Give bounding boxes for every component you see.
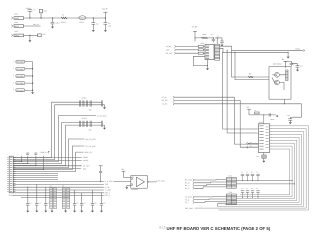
power UNSW_B+ (29, 11, 31, 18)
resistor network RN204 (67, 188, 70, 209)
svg-text:C2: C2 (251, 172, 253, 174)
wire IC1 out B (220, 48, 289, 52)
transformer T202 (226, 194, 236, 205)
svg-text:C2: C2 (241, 172, 243, 174)
svg-text:5_CH_ADJ: 5_CH_ADJ (97, 114, 106, 117)
wire RX_VCO in (194, 179, 226, 181)
svg-text:C2: C2 (241, 188, 243, 190)
wire bus7 (13, 146, 84, 170)
wire row C_H_ADJ (13, 181, 104, 183)
wire U203 pin5 wrap (228, 137, 299, 202)
ground supply end (276, 114, 278, 117)
ic U201 (205, 45, 214, 60)
wire RX_I in (194, 185, 226, 186)
svg-text:ANT1: ANT1 (15, 17, 19, 20)
filter CF202 (78, 123, 105, 126)
connector J202 (11, 25, 13, 28)
wire row ground bus (21, 196, 70, 198)
svg-text:SFE455E: SFE455E (16, 68, 24, 71)
svg-text:C_FL_ADJ: C_FL_ADJ (156, 179, 165, 182)
ground (206, 68, 209, 70)
wire row OPT_2 (13, 194, 104, 196)
wire IC1 in3 (176, 52, 198, 54)
resistor R221 (248, 76, 253, 78)
wire bus8 (13, 152, 83, 171)
svg-text:TX_Q: TX_Q (185, 198, 190, 201)
svg-text:5_CH: 5_CH (105, 186, 110, 189)
ground (80, 211, 83, 213)
capacitor C232 (36, 184, 38, 203)
capacitor U203 bypass (263, 153, 265, 156)
wire to U202 in1 (232, 50, 270, 77)
junction (52, 17, 53, 18)
wire speaker line (24, 34, 38, 36)
capacitor C221 (290, 63, 294, 64)
svg-text:SFE455E: SFE455E (16, 75, 24, 78)
svg-text:SFE455E: SFE455E (16, 89, 24, 92)
svg-text:XS201: XS201 (9, 194, 14, 197)
svg-text:DEMO: DEMO (83, 156, 89, 159)
capacitor C211 (212, 38, 214, 39)
junction (148, 181, 149, 182)
svg-text:MIC1: MIC1 (15, 25, 19, 28)
ground (262, 161, 265, 163)
filter FL204 (16, 82, 25, 85)
ground (104, 30, 107, 32)
capacitor C237 (101, 193, 103, 204)
wire mic line (24, 25, 41, 27)
svg-text:REF_OSC: REF_OSC (185, 207, 194, 210)
wire op-amp input (114, 181, 131, 183)
capacitor C201 (52, 18, 54, 22)
wire T201 out2 (236, 183, 294, 185)
wire to U202 in2 (235, 52, 269, 79)
block U202 (269, 67, 291, 100)
svg-text:RX_I: RX_I (185, 184, 189, 187)
svg-text:AF_OUT: AF_OUT (83, 165, 90, 168)
junction (29, 35, 30, 36)
wire U203 pin7 wrap (236, 143, 294, 198)
ground (289, 122, 292, 124)
ic U203 (258, 124, 269, 153)
wire riser 5T (13, 156, 28, 164)
svg-text:RX_DAT: RX_DAT (166, 52, 173, 55)
wire row AUDIO (13, 159, 82, 161)
svg-text:UHF RF BOARD VER C SCHEMATIC (: UHF RF BOARD VER C SCHEMATIC (PAGE 2 OF … (167, 226, 271, 231)
power pull-up (99, 166, 103, 168)
wire to U203 p1 (223, 52, 259, 129)
svg-text:U203: U203 (259, 121, 263, 124)
junction (32, 82, 33, 83)
wire TX_Q in (194, 198, 226, 201)
svg-text:SPK1: SPK1 (15, 34, 20, 37)
wire net3 (174, 104, 301, 117)
svg-text:SFE455E: SFE455E (16, 61, 24, 64)
wire supply row (195, 37, 213, 39)
wire TX_I in (194, 201, 226, 202)
svg-text:Q201/Q202: Q201/Q202 (273, 63, 282, 66)
svg-text:R3201: R3201 (61, 21, 66, 24)
svg-text:C_H_ADJ: C_H_ADJ (105, 180, 113, 183)
ferrite bead FB201 (38, 34, 42, 37)
wire IC1 in1 (176, 45, 198, 47)
capacitor C223 (269, 113, 271, 116)
junction (32, 68, 33, 69)
ground (26, 211, 29, 213)
svg-text:J202: J202 (14, 21, 18, 24)
inductor L201 (40, 13, 42, 18)
svg-text:RX_CH_ADJ: RX_CH_ADJ (85, 138, 96, 141)
capacitor C203 (104, 18, 106, 23)
filter FL205 (16, 89, 25, 92)
wire block internal (272, 75, 286, 90)
inductor L202 (79, 16, 86, 20)
wire bus2 (13, 105, 78, 160)
wire U203 pin4 wrap (225, 135, 302, 205)
svg-text:TX_EN: TX_EN (162, 103, 168, 106)
power block (283, 61, 287, 63)
wire row OPT_1 (13, 192, 104, 194)
svg-text:16_8M: 16_8M (166, 45, 172, 48)
resistor pack RP201 (215, 44, 220, 60)
wire U203 pin3 wrap (218, 132, 304, 207)
wire row TXD (13, 183, 104, 185)
op-amp U205 (131, 176, 148, 189)
ground (104, 125, 106, 128)
svg-text:C201: C201 (56, 22, 60, 25)
capacitor C235 (81, 193, 83, 204)
svg-text:UNSW: UNSW (26, 7, 32, 10)
resistor R212 (198, 49, 203, 51)
ground (35, 211, 38, 213)
resistor network RN202 (54, 188, 57, 209)
power op-amp (124, 173, 131, 177)
svg-text:450: 450 (89, 108, 92, 111)
wire row 5_CH (13, 186, 104, 188)
pin op-amp in- (131, 184, 132, 185)
filter CF201 (78, 102, 105, 105)
wire to U203 p2 (227, 50, 258, 133)
ground (31, 92, 34, 94)
connector J201 (11, 17, 13, 20)
svg-text:SQL: SQL (83, 167, 86, 170)
wire filter bus (25, 62, 33, 92)
power 5T_B+ (193, 31, 197, 33)
wire bus4 (13, 123, 78, 164)
node flag p7 (246, 146, 248, 148)
svg-text:C2: C2 (256, 172, 258, 174)
transformer T201 (226, 178, 236, 189)
wire RX_E in (194, 187, 226, 188)
svg-text:J203: J203 (14, 30, 18, 33)
power VCO_B+ (104, 12, 106, 18)
junction (105, 17, 106, 18)
capacitor C236 (92, 190, 94, 204)
svg-text:L201: L201 (43, 9, 47, 12)
wire row SQL (13, 168, 81, 170)
wire IC1 bottom loop (193, 56, 207, 68)
svg-text:U201: U201 (200, 42, 204, 45)
svg-text:U5A: U5A (131, 177, 134, 179)
capacitor C233 (45, 187, 47, 203)
transistor Q202 (275, 80, 280, 85)
capacitor C231 (27, 187, 29, 204)
filter FL202 (16, 67, 25, 70)
junction (93, 17, 94, 18)
junction (40, 17, 41, 18)
wire IC1 in2 (176, 49, 198, 51)
resistor network RN201 (50, 188, 53, 209)
junction (32, 90, 33, 91)
wire bus6 (13, 139, 84, 168)
svg-text:TX_CH_ADJ: TX_CH_ADJ (85, 145, 95, 148)
svg-text:L3202: L3202 (79, 21, 84, 24)
ground (44, 211, 47, 213)
wire RX_Q in (194, 181, 226, 184)
wire main antenna line (24, 17, 106, 19)
svg-text:MIC_HI: MIC_HI (33, 23, 39, 26)
ground (91, 211, 94, 213)
svg-text:C2: C2 (246, 172, 248, 174)
ground (221, 45, 224, 47)
resistor R213 (198, 52, 203, 54)
wire U203 pin2 wrap (195, 129, 307, 208)
pin op-amp in+ (131, 178, 132, 179)
resistor R222 (286, 70, 288, 81)
wire riser 5R (13, 156, 36, 166)
wire supply to U203 (249, 111, 276, 115)
svg-text:J201: J201 (14, 13, 18, 16)
svg-text:OPT_2: OPT_2 (105, 194, 111, 197)
wire riser P1 (13, 156, 21, 162)
wire riser USW (13, 156, 43, 170)
ground (29, 35, 31, 40)
capacitor C202 (92, 18, 94, 23)
wire IC1 out A (220, 46, 304, 50)
ground (100, 211, 103, 213)
svg-text:RX_VCO: RX_VCO (185, 179, 193, 182)
svg-text:5T_B+: 5T_B+ (192, 26, 199, 29)
wire row AFO (13, 165, 81, 167)
node flag p6 (246, 142, 248, 144)
junction (207, 65, 208, 66)
svg-text:FB1: FB1 (42, 33, 45, 36)
wire U203 pin8 wrap (236, 146, 292, 197)
power RX_B+ (247, 109, 251, 111)
svg-text:AUDIO: AUDIO (83, 159, 89, 162)
wire block top (285, 61, 297, 63)
svg-text:5T_B+: 5T_B+ (162, 96, 167, 99)
resistor network RN203 (62, 188, 65, 209)
resistor R211 (198, 45, 203, 47)
svg-text:RX_Q: RX_Q (185, 182, 190, 185)
ground (92, 30, 95, 32)
junction (29, 17, 30, 18)
wire RP201 to supply (216, 38, 218, 44)
wire into U203 top (263, 115, 265, 124)
svg-text:MOD_IN: MOD_IN (85, 151, 93, 154)
svg-text:T202: T202 (228, 191, 232, 194)
wire bus3 (13, 116, 96, 162)
wire U203 pin6 wrap (231, 140, 297, 200)
capacitor C226 (288, 119, 292, 120)
wire TX_VCO in (194, 196, 226, 198)
capacitor C234 (74, 190, 76, 204)
svg-text:450: 450 (89, 129, 92, 132)
ground (65, 209, 67, 211)
wire op-amp output (147, 181, 156, 183)
svg-text:RX_EN: RX_EN (162, 99, 168, 102)
svg-text:8-13: 8-13 (159, 225, 165, 229)
ground (73, 211, 76, 213)
svg-text:VCO B+: VCO B+ (102, 7, 108, 10)
wire rows short (13, 174, 58, 180)
svg-text:T201: T201 (228, 175, 232, 178)
resistor R201 (61, 17, 67, 19)
wire row DEMO (13, 156, 82, 158)
svg-text:USW_B+: USW_B+ (40, 151, 47, 154)
connector J203 (11, 34, 13, 37)
wire row T_LADJ (13, 189, 104, 191)
connector XS201 (9, 156, 13, 193)
resistor R214 (202, 37, 208, 39)
svg-text:TX_I: TX_I (185, 201, 189, 204)
svg-text:SFE455E: SFE455E (16, 82, 24, 85)
capacitor C222 (296, 66, 300, 68)
wire bus5 (13, 125, 78, 165)
svg-text:R7: R7 (254, 110, 256, 112)
svg-text:T_LADJ: T_LADJ (105, 189, 112, 192)
resistor R223 (255, 112, 260, 114)
wire U203 pin9 wrap (240, 149, 290, 195)
wire bus1 (13, 102, 78, 157)
wire block bottom stub (283, 99, 285, 104)
filter FL203 (16, 75, 25, 78)
ground (51, 27, 54, 29)
svg-text:C2: C2 (251, 188, 253, 190)
ground (51, 209, 53, 211)
wire T202 bottom loop (218, 203, 227, 206)
svg-text:CF201: CF201 (82, 97, 87, 100)
wire net2 (174, 100, 258, 147)
wire net1 (174, 97, 258, 144)
transistor Q201 (275, 72, 280, 77)
ground (287, 52, 289, 56)
capacitor C212 (194, 38, 196, 42)
junction (32, 75, 33, 76)
wire U203 pin1 wrap (219, 126, 309, 210)
svg-text:C2: C2 (256, 188, 258, 190)
svg-text:C2: C2 (246, 188, 248, 190)
svg-text:TX_VCO: TX_VCO (185, 196, 192, 199)
wire T201 out1 (236, 179, 292, 181)
svg-text:OPT_1: OPT_1 (105, 191, 111, 194)
ground (126, 185, 128, 187)
filter FL201 (16, 60, 25, 63)
svg-text:CF202: CF202 (82, 117, 87, 120)
wire stubs to IC1 (203, 46, 205, 53)
ground (104, 105, 106, 108)
ground (296, 70, 299, 72)
